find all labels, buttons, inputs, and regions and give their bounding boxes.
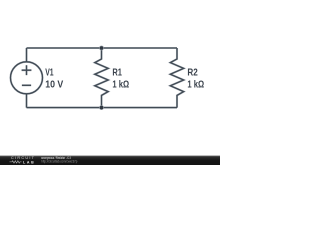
node bottom junction — [99, 105, 104, 110]
V1 plus sign — [22, 65, 32, 75]
wire halo (soft edge underlay) — [11, 48, 184, 108]
svg-text:http://circuitlab.com/cvwz37p: http://circuitlab.com/cvwz37p — [41, 159, 77, 163]
wire V1 top lead — [26, 48, 28, 62]
svg-text:10 V: 10 V — [45, 80, 63, 91]
resistor R2 — [170, 48, 183, 108]
svg-text:1 kΩ: 1 kΩ — [187, 80, 204, 91]
svg-text:LAB: LAB — [23, 160, 35, 164]
voltage source V1 — [11, 62, 43, 94]
wire V1 bottom lead — [26, 94, 28, 108]
svg-text:V1: V1 — [45, 68, 54, 79]
svg-text:R2: R2 — [187, 68, 198, 79]
wire top rail — [27, 47, 178, 49]
footer watermark bar — [0, 156, 220, 165]
node top junction — [99, 46, 104, 51]
CircuitLab logo resistor zigzag — [10, 161, 22, 163]
V1 minus sign — [22, 84, 31, 86]
wire bottom rail — [27, 107, 178, 109]
svg-text:1 kΩ: 1 kΩ — [112, 80, 129, 91]
resistor R1 — [95, 48, 108, 108]
svg-text:R1: R1 — [112, 68, 122, 79]
